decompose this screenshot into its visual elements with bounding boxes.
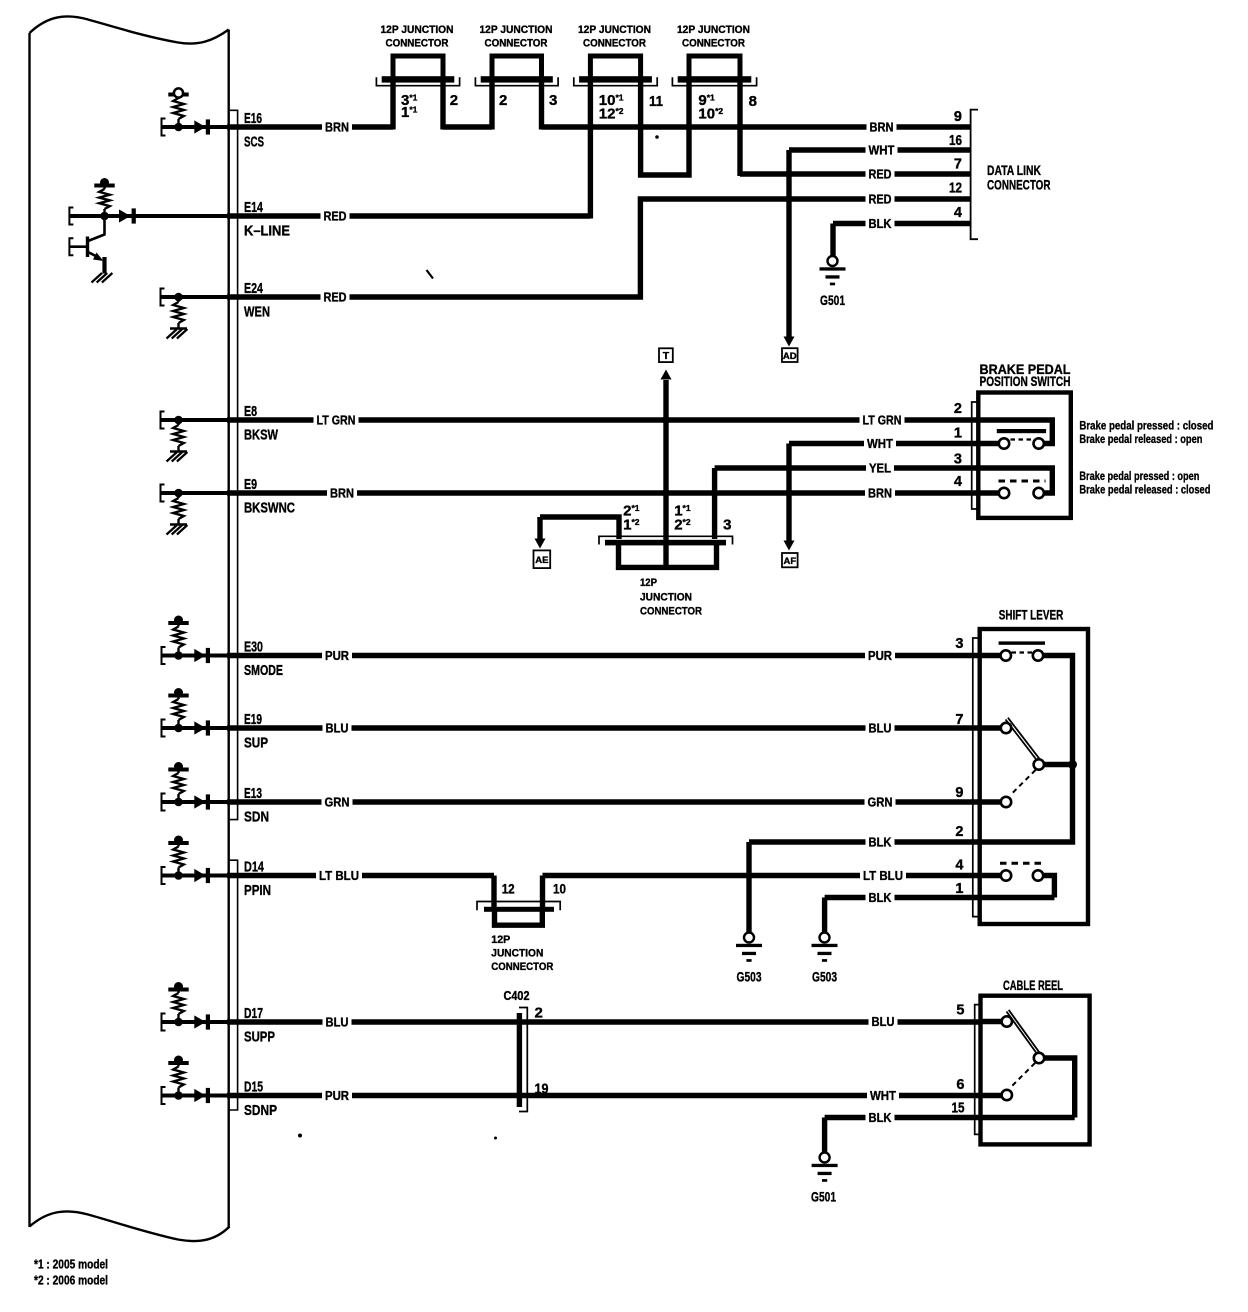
svg-text:K–LINE: K–LINE [244,224,290,240]
svg-text:RED: RED [869,167,892,182]
svg-text:1: 1 [954,426,962,442]
svg-text:Brake pedal pressed : closed: Brake pedal pressed : closed [1079,418,1213,432]
svg-text:SDNP: SDNP [244,1103,277,1119]
svg-text:WHT: WHT [867,436,893,451]
svg-text:Brake pedal released : closed: Brake pedal released : closed [1079,482,1210,496]
svg-text:7: 7 [954,157,962,173]
svg-text:PUR: PUR [325,1088,350,1103]
svg-text:E24: E24 [244,281,263,297]
svg-text:16: 16 [949,133,962,149]
svg-text:SUP: SUP [244,736,268,752]
svg-text:11: 11 [649,93,663,110]
svg-text:CONNECTOR: CONNECTOR [485,37,548,49]
svg-text:BLU: BLU [326,1015,349,1030]
svg-text:Brake pedal released : open: Brake pedal released : open [1079,432,1202,446]
svg-text:G503: G503 [812,969,837,985]
svg-text:GRN: GRN [868,795,893,810]
svg-text:12P JUNCTION: 12P JUNCTION [578,24,651,36]
svg-text:Brake pedal pressed : open: Brake pedal pressed : open [1079,469,1199,483]
svg-text:CABLE REEL: CABLE REEL [1003,978,1063,993]
svg-text:SCS: SCS [244,135,264,151]
svg-text:BLK: BLK [869,835,893,850]
svg-text:LT BLU: LT BLU [863,868,903,883]
svg-text:4: 4 [955,858,963,874]
svg-text:BKSW: BKSW [244,428,278,444]
svg-text:PPIN: PPIN [244,883,271,899]
svg-text:BLU: BLU [326,721,349,736]
svg-text:10: 10 [553,881,566,896]
svg-text:4: 4 [954,474,962,490]
svg-text:D15: D15 [244,1080,263,1096]
svg-text:RED: RED [324,209,347,224]
svg-text:T: T [663,350,670,362]
svg-text:5: 5 [956,1003,964,1019]
svg-text:SHIFT LEVER: SHIFT LEVER [999,607,1064,622]
svg-text:12P JUNCTION: 12P JUNCTION [677,24,750,36]
svg-text:E13: E13 [244,786,262,802]
svg-text:2: 2 [954,401,962,417]
svg-text:E19: E19 [244,712,262,728]
svg-text:E14: E14 [244,200,263,216]
svg-text:12P: 12P [640,577,657,589]
svg-text:6: 6 [956,1077,964,1093]
svg-text:YEL: YEL [869,461,891,476]
svg-text:2: 2 [955,824,963,840]
svg-text:BRN: BRN [868,486,892,501]
svg-text:BRN: BRN [870,120,894,135]
svg-text:7: 7 [955,712,963,728]
svg-text:D17: D17 [244,1006,263,1022]
svg-text:E16: E16 [244,111,262,127]
svg-text:CONNECTOR: CONNECTOR [386,37,449,49]
svg-text:BRN: BRN [330,486,354,501]
svg-text:G503: G503 [737,969,762,985]
svg-text:E30: E30 [244,640,263,656]
svg-text:BLK: BLK [869,890,893,905]
svg-text:12P JUNCTION: 12P JUNCTION [480,24,553,36]
svg-text:LT BLU: LT BLU [319,868,359,883]
svg-text:SMODE: SMODE [244,663,283,679]
svg-text:8: 8 [749,93,757,110]
svg-text:RED: RED [324,290,347,305]
svg-text:SUPP: SUPP [244,1030,275,1046]
svg-text:12: 12 [502,881,515,896]
svg-text:RED: RED [869,192,892,207]
svg-text:19: 19 [535,1081,549,1098]
svg-text:G501: G501 [811,1189,836,1205]
svg-text:CONNECTOR: CONNECTOR [682,37,745,49]
svg-text:BLU: BLU [872,1014,895,1029]
svg-text:SDN: SDN [244,810,269,826]
svg-text:2: 2 [535,1005,543,1022]
svg-text:CONNECTOR: CONNECTOR [987,177,1051,193]
svg-text:BLK: BLK [869,1110,893,1125]
svg-text:WEN: WEN [244,305,270,321]
svg-text:9: 9 [955,785,963,801]
svg-text:CONNECTOR: CONNECTOR [640,606,702,618]
svg-text:AF: AF [783,556,796,567]
svg-text:4: 4 [954,205,962,221]
svg-text:3: 3 [954,452,962,468]
svg-text:WHT: WHT [870,1088,896,1103]
svg-text:BLU: BLU [869,721,892,736]
svg-text:C402: C402 [504,989,530,1003]
svg-text:2: 2 [450,92,458,109]
svg-text:CONNECTOR: CONNECTOR [583,37,646,49]
svg-text:*1 : 2005 model: *1 : 2005 model [34,1258,108,1272]
svg-text:AD: AD [783,351,797,362]
svg-text:CONNECTOR: CONNECTOR [491,961,553,973]
svg-text:E8: E8 [244,404,257,420]
svg-text:12P: 12P [491,934,510,946]
svg-text:LT GRN: LT GRN [863,413,902,428]
svg-text:E9: E9 [244,477,257,493]
svg-text:LT GRN: LT GRN [317,413,356,428]
svg-text:G501: G501 [820,292,845,308]
svg-text:JUNCTION: JUNCTION [640,592,692,604]
svg-text:WHT: WHT [869,143,895,158]
svg-text:POSITION SWITCH: POSITION SWITCH [980,374,1071,389]
svg-text:GRN: GRN [325,795,350,810]
svg-text:12: 12 [949,180,962,196]
svg-text:BRN: BRN [325,120,349,135]
svg-text:12P JUNCTION: 12P JUNCTION [381,24,454,36]
svg-text:15: 15 [952,1101,965,1117]
svg-text:PUR: PUR [325,648,350,663]
svg-text:BKSWNC: BKSWNC [244,501,295,517]
svg-text:3: 3 [955,636,963,652]
svg-text:*2 : 2006 model: *2 : 2006 model [34,1274,108,1288]
svg-text:AE: AE [535,555,548,566]
svg-text:2: 2 [499,92,507,109]
svg-text:D14: D14 [244,860,264,876]
svg-text:BLK: BLK [869,216,893,231]
svg-text:3: 3 [549,92,557,109]
svg-text:1: 1 [955,881,963,897]
svg-text:3: 3 [723,517,731,534]
svg-text:9: 9 [954,109,962,125]
svg-text:JUNCTION: JUNCTION [491,948,543,960]
svg-text:PUR: PUR [868,648,893,663]
